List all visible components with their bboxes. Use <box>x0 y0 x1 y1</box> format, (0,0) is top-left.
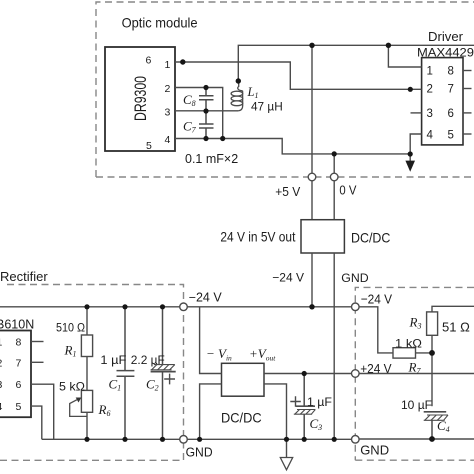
svg-text:1: 1 <box>165 59 171 71</box>
node +5V tap <box>309 43 314 48</box>
op-amp U1 DR9300 <box>105 47 175 152</box>
svg-text:1 µF: 1 µF <box>100 353 126 367</box>
node C7 bot <box>203 136 208 141</box>
wire dcdc top to -24V rail <box>311 253 313 307</box>
ground <box>286 439 288 457</box>
svg-text:3: 3 <box>165 107 171 119</box>
svg-text:0.1 mF×2: 0.1 mF×2 <box>185 152 238 166</box>
svg-text:6: 6 <box>448 108 454 120</box>
wire MAX4429 pin4 <box>410 134 421 162</box>
svg-text:8: 8 <box>16 337 22 349</box>
node pin2 drop <box>220 136 225 141</box>
wire dcdc top 0V to GND rail <box>333 253 335 439</box>
node C3 top <box>302 371 307 376</box>
capacitor C1 1uF <box>100 307 134 440</box>
svg-text:47 µH: 47 µH <box>251 100 283 114</box>
svg-text:24 V in 5V out: 24 V in 5V out <box>220 228 295 244</box>
wire MAX4429 pin1 <box>388 45 421 67</box>
diode arrow at MAX4429 pin4 <box>405 161 415 172</box>
output dashed box <box>355 287 474 460</box>
svg-text:−24 V: −24 V <box>272 270 304 284</box>
svg-text:2: 2 <box>165 83 171 95</box>
wire DR9300 pin4 to 0V node <box>175 139 410 154</box>
svg-text:2: 2 <box>0 357 3 369</box>
node L1 top <box>236 78 241 83</box>
svg-text:4: 4 <box>427 129 434 141</box>
svg-text:1: 1 <box>0 337 3 349</box>
inductor L1 <box>231 81 243 111</box>
node -24V rectifier terminal <box>180 303 188 311</box>
node C2 bot <box>160 437 165 442</box>
resistor R1 510 ohm <box>56 307 93 391</box>
node C2 top <box>160 304 165 309</box>
capacitor C2 2.2uF polarized <box>131 307 176 440</box>
capacitor C3 1uF polarized <box>290 374 332 440</box>
wire +5V vertical <box>311 45 313 173</box>
svg-text:8: 8 <box>448 66 454 78</box>
node dcdc2 gnd left <box>197 437 202 442</box>
node GND rectifier terminal <box>180 436 188 444</box>
svg-text:51 Ω: 51 Ω <box>442 320 470 335</box>
svg-text:1 kΩ: 1 kΩ <box>395 336 422 350</box>
capacitor C7 <box>199 111 214 139</box>
node dcdc -24V <box>309 304 314 309</box>
svg-text:7: 7 <box>16 357 22 369</box>
node R7 R3 <box>429 350 435 356</box>
wire -24V rail <box>0 306 355 308</box>
wire B610N pin5 to GND <box>31 406 42 439</box>
svg-text:B610N: B610N <box>0 318 34 332</box>
node 0V gnd <box>332 437 337 442</box>
node C8 C7 <box>203 108 208 113</box>
svg-text:7: 7 <box>448 84 454 96</box>
node C8 top <box>203 85 208 90</box>
svg-text:GND: GND <box>341 271 368 285</box>
svg-text:6: 6 <box>146 54 152 66</box>
svg-text:MAX4429: MAX4429 <box>417 48 474 60</box>
svg-text:DC/DC: DC/DC <box>351 230 390 246</box>
svg-text:510 Ω: 510 Ω <box>56 321 85 335</box>
wire DR9300 pin1 to MAX4429 pin2 <box>175 62 422 89</box>
resistor R7 1k ohm <box>359 307 432 376</box>
wire dcdc2 left gnd <box>200 384 222 439</box>
node +5V terminal <box>308 173 316 181</box>
wire DR9300 pin3 <box>175 110 238 112</box>
svg-text:3: 3 <box>0 379 3 391</box>
svg-text:5: 5 <box>448 129 454 141</box>
svg-text:6: 6 <box>16 379 22 391</box>
svg-text:Optic module: Optic module <box>122 15 198 31</box>
wire B610N pin7 stub <box>31 361 44 363</box>
node +24V output terminal <box>352 370 360 378</box>
wire MAX4429 pin7 stub <box>463 88 472 90</box>
capacitor C4 10uF polarized <box>401 398 450 439</box>
wire MAX4429 pin8 stub <box>463 70 472 72</box>
driver U2 MAX4429 <box>417 48 474 145</box>
resistor R3 51 ohm <box>409 306 474 406</box>
svg-text:DC/DC: DC/DC <box>221 410 262 426</box>
svg-text:2: 2 <box>427 84 433 96</box>
svg-text:−24 V: −24 V <box>361 292 393 307</box>
wire MAX4429 pin3 stub <box>411 112 422 114</box>
svg-text:Driver: Driver <box>428 29 464 44</box>
svg-text:1 µF: 1 µF <box>307 395 332 409</box>
svg-text:5 kΩ: 5 kΩ <box>59 379 85 393</box>
svg-text:5: 5 <box>146 140 152 152</box>
node R6 bot <box>84 437 89 442</box>
svg-text:0 V: 0 V <box>339 182 356 197</box>
node 0V tap <box>332 151 337 156</box>
wire +24V to edge <box>359 373 474 375</box>
node C4 bot <box>429 436 435 442</box>
wire dcdc2 -Vin to -24V rail <box>200 307 222 374</box>
capacitor C8 <box>199 88 214 112</box>
node pin1 MAX tap <box>386 43 391 48</box>
node GND output terminal <box>352 436 360 444</box>
dc/dc converter top <box>301 220 344 253</box>
node pin4 MAX dot <box>408 151 413 156</box>
wire DR9300 pin2 <box>175 88 223 139</box>
node R1 top <box>84 304 89 309</box>
svg-text:GND: GND <box>186 446 213 460</box>
dc/dc converter bottom <box>206 346 276 426</box>
svg-text:GND: GND <box>360 443 389 458</box>
node pin2 MAX dot <box>408 87 413 92</box>
node C1 bot <box>122 437 127 442</box>
svg-text:10 µF: 10 µF <box>401 398 432 412</box>
wire L1 top rail <box>238 45 474 81</box>
rectifier U3 B610N <box>0 318 34 418</box>
node C1 top <box>122 304 127 309</box>
svg-text:DR9300: DR9300 <box>131 76 150 121</box>
wire B610N pin8 stub <box>31 341 44 343</box>
svg-text:−24 V: −24 V <box>189 291 223 305</box>
wire dcdc2 +Vout to +24V <box>264 373 355 375</box>
node pin1 dot <box>180 59 185 64</box>
svg-text:5: 5 <box>16 401 22 413</box>
node C3 bot <box>302 437 307 442</box>
node 0V terminal <box>330 173 338 181</box>
svg-text:2.2 µF: 2.2 µF <box>131 353 165 367</box>
wire B610N pin6 to GND <box>31 384 54 439</box>
node dcdc2 gnd right <box>284 437 289 442</box>
wire GND rail <box>42 438 356 440</box>
svg-text:4: 4 <box>165 134 171 146</box>
svg-text:3: 3 <box>427 108 433 120</box>
svg-text:Rectifier: Rectifier <box>0 269 48 284</box>
wire dcdc2 right gnd <box>264 384 287 439</box>
svg-text:1: 1 <box>427 66 433 78</box>
rectifier dashed box <box>0 285 184 461</box>
potentiometer R6 5k ohm <box>59 379 110 439</box>
wire MAX4429 pin6 stub <box>463 112 472 114</box>
wire GND right to edge <box>359 438 474 440</box>
wire 0V vertical <box>333 154 335 173</box>
svg-text:+5 V: +5 V <box>275 184 300 199</box>
wire MAX4429 pin5 stub <box>463 133 472 135</box>
optic module dashed box <box>96 2 474 177</box>
node -24V output terminal <box>352 303 360 311</box>
svg-text:4: 4 <box>0 401 3 413</box>
